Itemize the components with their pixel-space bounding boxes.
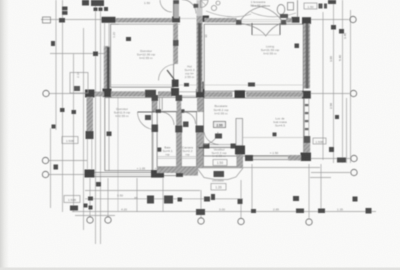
bottom wall under closets <box>157 167 198 173</box>
french door jamb right <box>281 20 287 25</box>
wall stub top cap <box>174 0 180 4</box>
dark mark right bath <box>280 14 288 18</box>
closet A door arc <box>161 112 174 125</box>
hall door sill line <box>180 18 196 20</box>
right wall dark core <box>306 24 309 89</box>
room outline dormitor1 <box>111 24 174 87</box>
room outline dormitor2 <box>105 98 152 171</box>
dropper x309 <box>308 164 310 218</box>
dim line right x333 <box>333 0 335 163</box>
node mid wall x150 <box>145 90 156 97</box>
axis box top-left <box>43 17 51 23</box>
dormitor2 door arc <box>138 112 156 130</box>
room outline bucatarie <box>204 98 304 156</box>
axis circle C right <box>350 90 356 96</box>
dim line right x327 <box>322 12 324 160</box>
axis circle B right <box>351 155 357 161</box>
dim text blob b <box>62 11 68 15</box>
bay opening thin lines <box>210 144 231 146</box>
node divider mid <box>175 126 182 133</box>
baie door jamb stub <box>159 97 161 110</box>
axis circle 1 bottom <box>87 217 93 223</box>
line y177 right short <box>310 177 331 179</box>
camara door hinge node <box>179 109 185 113</box>
ticks top-left boxes <box>82 0 89 6</box>
kitchen door arc <box>204 132 219 145</box>
tick left dim 2 <box>72 110 77 114</box>
axis circle A left <box>42 171 48 177</box>
mid wall segment 4 <box>246 92 303 97</box>
right wall lower gray <box>304 137 310 156</box>
top wall node left corner <box>102 17 116 23</box>
dim line left x50 <box>50 128 52 208</box>
ticks bottom line cluster <box>196 209 205 215</box>
room outline camara <box>181 112 196 167</box>
dim line right x346 <box>346 98 348 163</box>
axis circle A right <box>351 169 357 175</box>
bottom-right window lines <box>253 155 288 157</box>
porch mark dark <box>74 86 80 91</box>
bay node top-right <box>231 144 243 149</box>
left wall window thin lines upper <box>104 23 106 47</box>
dim text blob a <box>62 7 68 11</box>
dim line right x341 <box>342 0 344 163</box>
closet B door arc <box>184 112 196 124</box>
bedroom1 door arc <box>159 65 175 81</box>
bedroom1 wall node mid <box>173 40 179 46</box>
mid wall thin pass (hol) <box>179 91 196 93</box>
axis connector y93 left <box>49 93 86 95</box>
node x152 y127 <box>152 125 159 133</box>
ticks at x95 y8 <box>94 8 98 12</box>
left wall upper dark core <box>107 47 110 90</box>
mid wall porch segment <box>94 92 104 97</box>
dropper x321 <box>320 164 322 212</box>
node right of bay <box>245 155 253 161</box>
axis line horizontal y19 left <box>41 19 103 21</box>
box label right top <box>304 3 317 9</box>
bay right wall <box>237 148 243 168</box>
axis line x100 <box>100 0 102 244</box>
french door sill thin lines <box>240 19 282 21</box>
box label left bottom <box>64 196 80 203</box>
tick below wall left <box>96 182 101 187</box>
axis line horizontal y160 left <box>49 160 87 162</box>
dim line bottom y200 <box>85 198 243 200</box>
interior axis thin line y85 <box>111 84 303 86</box>
node bottom wall x176 <box>176 169 183 177</box>
axis line x118 through dormitor2 <box>117 97 119 212</box>
mid wall segment 2 <box>158 91 172 96</box>
dropper x90 <box>89 178 91 217</box>
right wall window thin lines <box>303 99 305 138</box>
box label bay 2 <box>211 184 226 191</box>
french arc lower right <box>266 24 281 37</box>
bedroom1 wall node bottom <box>172 80 179 88</box>
french arc upper left <box>240 6 270 21</box>
room outline living <box>204 24 303 91</box>
axis circle 5 bottom <box>306 219 312 225</box>
left wall lower window <box>86 139 88 169</box>
node bottom wall x151 <box>151 170 164 178</box>
door X mark camara <box>183 122 189 128</box>
axis connector y19 right <box>311 19 349 21</box>
axis connector y172 right <box>311 172 350 174</box>
bottom-left window lines <box>94 171 152 173</box>
axis circle D right <box>350 16 356 22</box>
french arc lower sill <box>252 34 280 36</box>
left page edge shadow <box>0 0 9 270</box>
bay node top-left <box>199 144 210 149</box>
axis line horizontal y53 <box>50 53 104 55</box>
bedroom1 right wall x173-178 <box>174 23 179 64</box>
top left small arc <box>160 0 172 12</box>
french arc lower left <box>242 24 267 37</box>
tick y84 b <box>248 83 255 87</box>
tick y84 a <box>184 83 189 87</box>
camara shelf lines <box>157 156 204 158</box>
tick right dim a <box>329 147 334 152</box>
kitchen window rect <box>236 119 243 146</box>
node x152 y97 <box>152 95 159 101</box>
node mid wall x171 <box>171 88 179 96</box>
top wall node right of door <box>292 17 300 23</box>
interior wall x196-202 below door <box>197 130 203 148</box>
bath wall line <box>297 0 299 17</box>
wall stub up at x174 <box>174 0 180 18</box>
interior wall x196-202 lower section <box>197 98 203 113</box>
node left wall / mid wall <box>103 89 112 98</box>
mid wall segment 3 (bucatarie top) <box>205 92 233 97</box>
left wall lower node mid <box>86 131 94 139</box>
axis connector y93 right <box>311 93 350 95</box>
door X mark dormitor2 <box>145 115 151 120</box>
french door leaf left <box>251 23 253 35</box>
interior wall dark segment above node <box>198 82 204 90</box>
wall x153-157 lower thin <box>152 132 154 170</box>
top wall gray right span <box>286 18 292 23</box>
toilet right <box>277 5 285 15</box>
top hall door arc <box>182 0 196 14</box>
room outline hol lower <box>153 97 204 111</box>
french arc upper outer right <box>251 12 296 17</box>
dropper x137 <box>136 178 138 212</box>
tick dorm2 <box>107 132 112 137</box>
node bottom-right corner <box>301 153 312 162</box>
node mid wall x196 <box>196 89 205 98</box>
dropper x252 <box>251 164 253 212</box>
dropper x163 <box>162 178 164 212</box>
dropper x201 <box>200 190 202 218</box>
right wall lower node <box>304 136 310 143</box>
interior wall x196-202 vertical upper light <box>197 0 203 16</box>
tick left x51 y42 <box>51 41 55 46</box>
dropper x108 <box>107 178 109 217</box>
baie door hinge node <box>156 109 162 113</box>
inner wall face line dormitor2 <box>108 97 110 171</box>
dim line bottom y215 short <box>75 215 115 217</box>
room outline bay interior <box>203 148 237 167</box>
bay window splay <box>197 168 243 180</box>
small circle fixture 2 <box>216 1 220 5</box>
mid wall segment 1 <box>111 91 145 96</box>
closets divider wall <box>177 97 182 168</box>
tick right top <box>328 0 336 4</box>
bottom-right wall gray segment <box>288 155 301 161</box>
left wall lower gray <box>87 97 94 133</box>
french door jamb left <box>236 20 242 25</box>
left wall upper gray <box>104 46 110 90</box>
dim line left x83 <box>83 28 85 230</box>
tick living right <box>295 44 300 49</box>
axis circle 2 bottom <box>105 217 111 223</box>
axis circle C left <box>43 90 49 96</box>
node mid wall left exterior <box>85 90 95 98</box>
top wall node at x195 <box>197 16 209 23</box>
dim line y190 short left <box>85 190 200 192</box>
node right wall / mid wall <box>302 91 311 99</box>
axis connector y158 right <box>311 158 350 160</box>
tick right dim c <box>331 25 336 30</box>
dim line left x73 <box>73 54 75 212</box>
top wall inner face line <box>119 23 180 25</box>
dim line y167 mid right <box>190 167 320 169</box>
node mid wall x232 big <box>235 90 246 98</box>
kitchen dropper line <box>240 154 242 166</box>
bay left wall <box>197 147 203 168</box>
bedroom1 door leaf <box>167 70 175 81</box>
box label left mid <box>62 137 78 144</box>
bottom page edge line <box>0 268 400 270</box>
porch rectangle left <box>70 73 88 94</box>
axis circle B left <box>42 157 48 163</box>
dim line right x350 <box>350 10 352 163</box>
dim line left x56 <box>55 0 57 130</box>
arrow on y19 line <box>59 18 65 23</box>
dim line bottom y212 <box>72 211 376 213</box>
axis line horizontal y174 left <box>49 174 86 176</box>
node bottom-left corner <box>85 170 95 178</box>
right wall gray upper <box>304 24 311 89</box>
bay splay dark marks <box>214 171 225 177</box>
baie dark square <box>158 148 162 152</box>
interior wall x196-202 vertical <box>197 16 203 92</box>
bay splay inner line <box>197 167 243 169</box>
room outline baie <box>157 112 176 167</box>
bottom-left window lines 2 <box>164 170 177 172</box>
tick x95 y53 <box>93 52 98 57</box>
dim line left x62 <box>62 0 64 212</box>
french door leaf right <box>279 23 281 35</box>
kitchen door mark <box>215 134 222 139</box>
small circle fixture 1 <box>211 5 216 10</box>
top wall node right corner <box>302 17 311 24</box>
french arc upper outer left <box>206 11 251 17</box>
wall stub up edge lines <box>173 0 175 18</box>
dormitor2 closet wall x152-157 <box>153 97 158 111</box>
tick room1 <box>126 37 131 41</box>
axis line x95 <box>95 0 97 244</box>
interior wall node x197 y126 <box>196 126 204 133</box>
dropper x241 <box>240 180 242 218</box>
bottom wall gray to bay <box>183 170 198 176</box>
tick kitchen right <box>273 133 277 137</box>
door hinge cluster <box>194 4 199 8</box>
node divider top <box>176 95 183 101</box>
glyphs right top <box>319 4 323 9</box>
right wall window mullions <box>305 104 309 106</box>
dining divider line <box>242 137 303 139</box>
dormitor2 door leaf <box>138 111 156 113</box>
axis circle 4 bottom <box>238 218 244 224</box>
top wall node at x174 <box>172 17 180 23</box>
bucatarie boxed label <box>214 122 226 128</box>
top wall gray left span <box>112 18 174 23</box>
window rect cap block <box>235 146 245 155</box>
kitchen door arc 2 <box>204 132 219 145</box>
fan fixture <box>201 0 209 8</box>
cistern right <box>288 3 294 11</box>
top wall gray span to french door <box>205 18 237 23</box>
french arc upper right <box>252 6 282 21</box>
box label right low <box>313 138 326 144</box>
tick right mid plus <box>335 115 339 119</box>
axis circle 3 bottom <box>198 218 204 224</box>
tick right dim d <box>339 29 344 34</box>
tick between left circles <box>54 165 59 170</box>
tick left dim 1 <box>60 108 65 112</box>
tick left x53 y126 <box>52 125 56 129</box>
box label bay 1 <box>213 160 227 166</box>
interior wall x196 dark core <box>198 23 201 92</box>
tick right dim b <box>337 158 346 163</box>
